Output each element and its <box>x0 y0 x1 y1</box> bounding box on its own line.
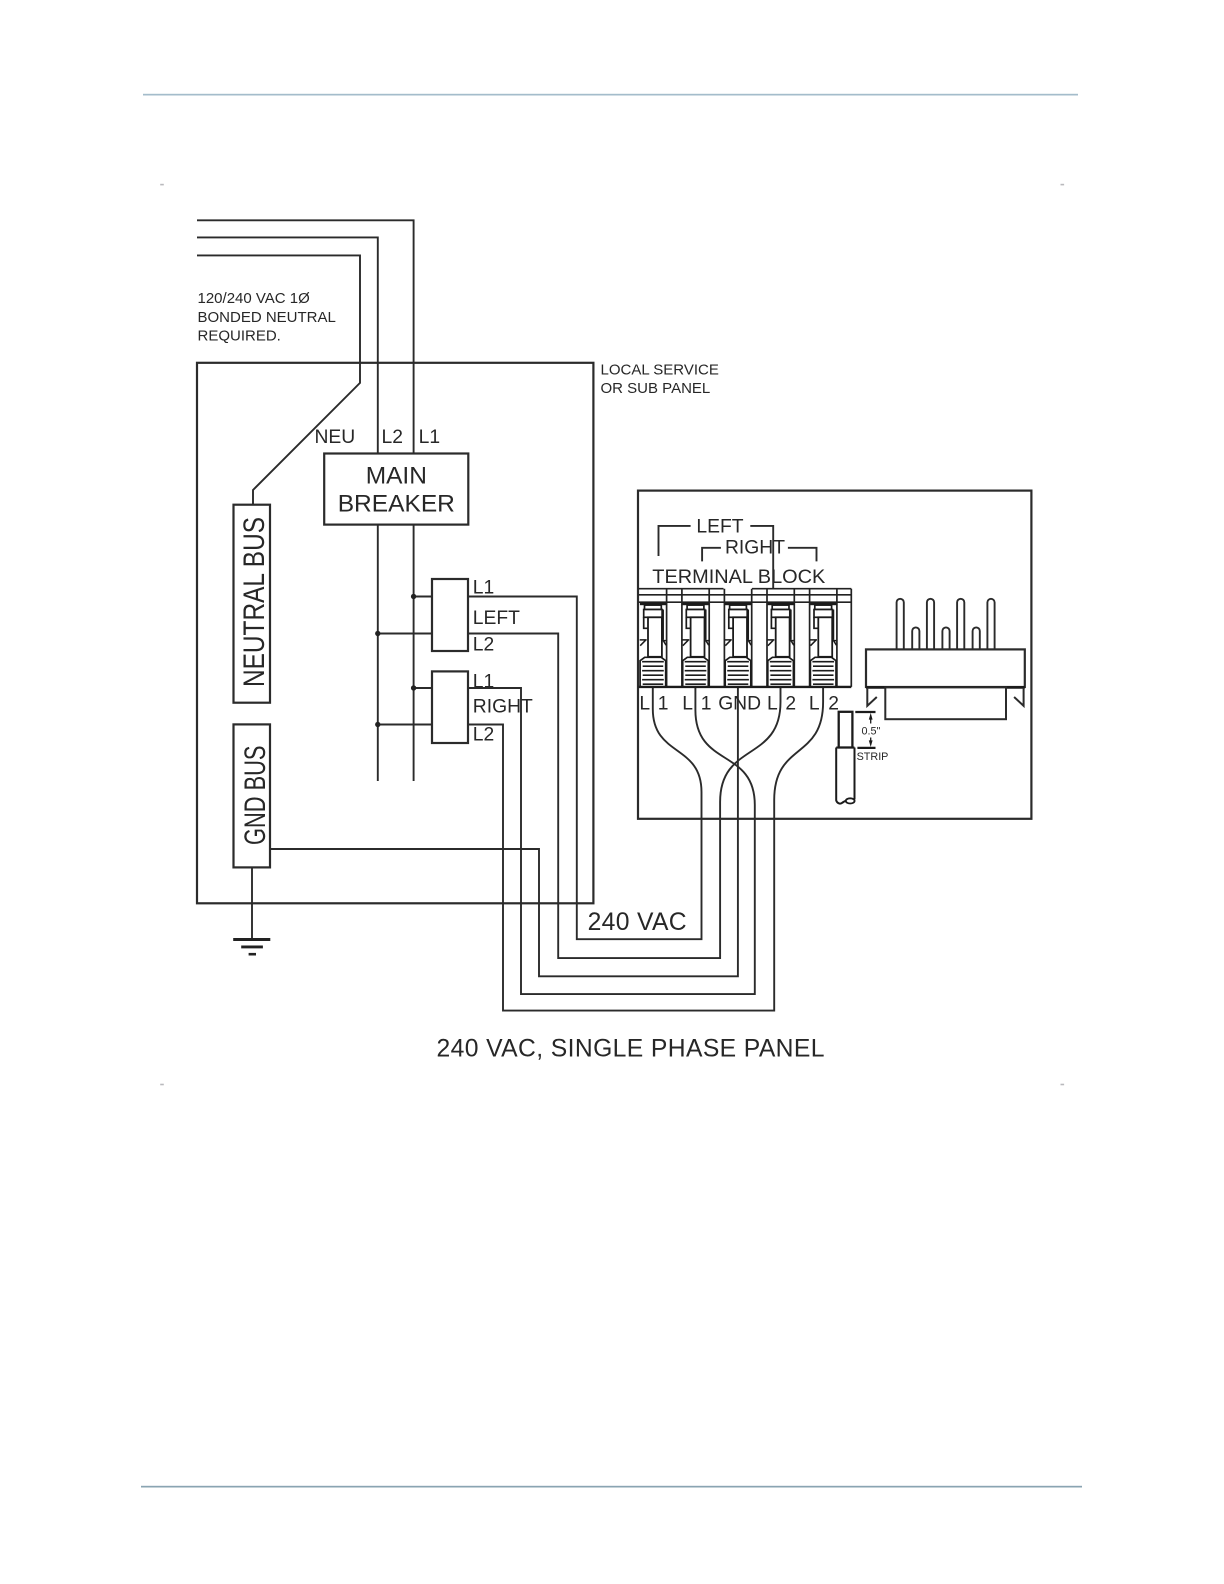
ground symbol <box>233 938 270 941</box>
ground stem <box>251 867 253 938</box>
local service panel enclosure <box>197 363 593 904</box>
terminal block enclosure <box>638 491 1031 819</box>
svg-text:BREAKER: BREAKER <box>338 491 455 518</box>
bracket RIGHT right arm <box>788 548 817 562</box>
dimension arrow <box>870 717 872 744</box>
svg-text:L: L <box>809 693 820 714</box>
svg-text:2: 2 <box>785 693 796 714</box>
terminal block rail <box>639 589 852 687</box>
svg-text:L2: L2 <box>473 635 494 656</box>
svg-text:L1: L1 <box>419 427 440 448</box>
svg-text:240 VAC: 240 VAC <box>588 909 687 936</box>
svg-text:NEUTRAL BUS: NEUTRAL BUS <box>238 517 271 687</box>
svg-text:240 VAC, SINGLE PHASE PANEL: 240 VAC, SINGLE PHASE PANEL <box>437 1036 825 1063</box>
svg-text:TERMINAL BLOCK: TERMINAL BLOCK <box>652 566 825 588</box>
left breaker box <box>432 579 468 651</box>
top rule <box>143 94 1078 96</box>
dimension tick bottom <box>857 747 875 749</box>
bracket LEFT right arm <box>750 526 773 589</box>
svg-text:120/240 VAC 1Ø: 120/240 VAC 1Ø <box>198 290 311 307</box>
bracket LEFT left arm <box>659 526 691 556</box>
wire gnd bus to terminal 3 <box>270 687 738 976</box>
wire tap L2 to right breaker <box>378 724 432 726</box>
bracket RIGHT left arm <box>702 548 721 562</box>
svg-text:BONDED NEUTRAL: BONDED NEUTRAL <box>198 309 336 326</box>
gnd bus box <box>234 724 271 867</box>
connector body <box>866 649 1025 687</box>
svg-text:L: L <box>639 693 650 714</box>
connector short pins <box>912 627 980 649</box>
wire right L1 to terminal 2 <box>468 687 755 994</box>
wire L1 feeder <box>197 220 414 453</box>
terminal clamp 3 (GND) <box>725 603 751 687</box>
junction dot L1 right <box>411 685 416 690</box>
wire L1 below breaker <box>413 525 415 781</box>
wire tap L2 to left breaker <box>378 633 432 635</box>
svg-text:OR SUB PANEL: OR SUB PANEL <box>601 380 711 397</box>
terminal clamp 5 (L2 right) <box>810 603 836 687</box>
dimension tick top <box>855 711 875 713</box>
junction dot L2 left <box>375 631 380 636</box>
svg-text:1: 1 <box>658 693 669 714</box>
wire left L2 to terminal 4 <box>468 634 781 959</box>
svg-text:L: L <box>682 693 693 714</box>
bottom rule <box>141 1486 1082 1488</box>
connector right hook <box>1014 689 1024 706</box>
wire L2 below breaker <box>377 525 379 781</box>
corner mark bottom-left <box>160 1084 164 1086</box>
svg-text:REQUIRED.: REQUIRED. <box>198 327 281 344</box>
svg-text:0.5": 0.5" <box>862 725 881 737</box>
connector lower housing <box>885 687 1006 719</box>
corner mark top-left <box>160 184 164 186</box>
svg-text:LOCAL SERVICE: LOCAL SERVICE <box>601 362 719 379</box>
svg-text:2: 2 <box>828 693 839 714</box>
wire right L2 to terminal 5 <box>468 687 823 1011</box>
wire left L1 to terminal 1 <box>468 597 702 940</box>
terminal labels L1 L1 GND L2 L2 <box>639 693 839 714</box>
terminal block bottom edge <box>639 686 852 688</box>
svg-text:L: L <box>767 693 778 714</box>
svg-text:RIGHT: RIGHT <box>725 538 785 559</box>
svg-text:1: 1 <box>701 693 712 714</box>
svg-text:L2: L2 <box>473 725 494 746</box>
wire NEU feeder with diagonal to neutral bus <box>197 255 360 504</box>
svg-text:GND: GND <box>718 693 761 714</box>
svg-text:GND BUS: GND BUS <box>239 746 272 846</box>
neutral bus box <box>234 505 271 703</box>
svg-text:STRIP: STRIP <box>857 751 889 763</box>
corner mark top-right <box>1061 184 1065 186</box>
stripped wire insulated section <box>836 748 854 804</box>
svg-text:LEFT: LEFT <box>473 608 520 629</box>
svg-text:RIGHT: RIGHT <box>473 697 533 718</box>
svg-text:NEU: NEU <box>315 427 356 448</box>
svg-text:L2: L2 <box>382 427 403 448</box>
wire tap L1 to right breaker <box>414 687 432 689</box>
stripped wire end ellipse <box>846 798 855 803</box>
right breaker box <box>432 671 468 743</box>
connector tall pins <box>897 599 995 650</box>
svg-text:L1: L1 <box>473 672 494 693</box>
stripped wire bare section <box>839 712 853 748</box>
terminal clamp 1 (L1 left) <box>640 603 666 687</box>
main breaker box <box>324 454 468 525</box>
terminal clamp 2 (L1 right) <box>682 603 708 687</box>
junction dot L1 left <box>411 594 416 599</box>
terminal clamp 4 (L2 left) <box>767 603 793 687</box>
svg-text:L1: L1 <box>473 578 494 599</box>
wire tap L1 to left breaker <box>414 596 432 598</box>
svg-text:MAIN: MAIN <box>366 463 427 490</box>
junction dot L2 right <box>375 722 380 727</box>
corner mark bottom-right <box>1061 1084 1065 1086</box>
connector body bottom thick edge <box>866 686 1025 689</box>
connector left hook <box>867 689 877 706</box>
svg-text:LEFT: LEFT <box>696 516 743 537</box>
wire L2 feeder <box>197 237 378 453</box>
